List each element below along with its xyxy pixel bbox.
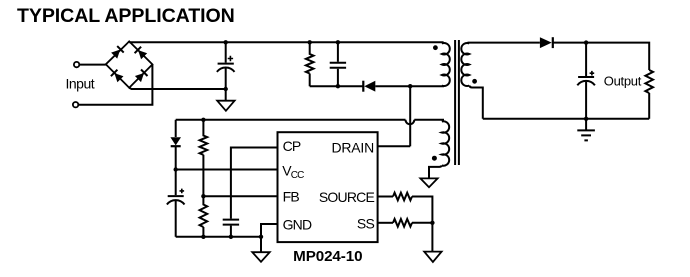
ground symbol G1 (input cap) <box>217 101 234 111</box>
plus sign C5 <box>590 71 595 76</box>
junction dot rail / GND <box>259 235 263 239</box>
junction dot output bottom <box>584 117 588 121</box>
svg-text:DRAIN: DRAIN <box>331 139 374 155</box>
wire bridge bottom to input cap <box>129 88 226 89</box>
svg-text:TYPICAL APPLICATION: TYPICAL APPLICATION <box>17 5 235 27</box>
svg-text:CP: CP <box>283 138 301 154</box>
junction dot top rail / C2 <box>336 40 340 44</box>
svg-text:SOURCE: SOURCE <box>319 189 375 205</box>
wire snubber bottom <box>310 85 363 87</box>
wire aux bottom to ground <box>429 166 442 179</box>
svg-text:MP024-10: MP024-10 <box>293 248 362 265</box>
capacitor C2 (snubber) <box>330 42 346 86</box>
junction dot SS node <box>430 221 434 225</box>
svg-text:Output: Output <box>604 73 642 88</box>
op IC U1 MP024-10 box <box>278 132 378 242</box>
bridge rectifier BR1 diamond <box>106 41 153 87</box>
wire R5 to vertical <box>412 197 432 223</box>
junction dot top rail / R1 <box>308 40 312 44</box>
junction dot FB node <box>201 194 205 198</box>
junction dot output top <box>584 40 588 44</box>
wire R6 to junction <box>412 222 432 224</box>
resistor R1 (snubber) <box>306 42 314 86</box>
bridge diode D2 (top-right, pointing NW) <box>135 47 148 60</box>
plus sign C3 <box>180 189 185 194</box>
capacitor C1 (input bulk, polarized) <box>217 42 235 100</box>
wire J2 to bridge right corner <box>79 64 153 104</box>
wire secondary top to output <box>468 42 540 44</box>
capacitor C5 (output, polarized) <box>577 43 595 119</box>
junction dot C1 bottom <box>224 87 228 91</box>
svg-text:FB: FB <box>283 189 300 205</box>
wire DRAIN pin <box>378 145 411 147</box>
phase dot secondary <box>472 79 477 84</box>
wire GND pin <box>261 224 278 252</box>
resistor R5 (source) <box>393 193 412 201</box>
wire SS node to ground <box>431 223 433 252</box>
wire ground rail (bottom left) <box>176 236 261 238</box>
bridge diode D3 (bottom-left, pointing NW) <box>111 70 124 83</box>
wire D5 anode to drain node <box>375 85 410 87</box>
plus sign C1 <box>228 56 233 61</box>
svg-text:GND: GND <box>283 216 312 232</box>
resistor R4 (load) <box>645 70 653 119</box>
wire D6 cathode to load <box>553 43 649 70</box>
wire output bottom rail <box>483 118 649 120</box>
input terminal J1 (top) <box>74 62 79 67</box>
output diode D6 (pointing right) <box>540 37 553 48</box>
input terminal J2 (bottom) <box>73 102 78 107</box>
diode D7 (VCC rectifier, pointing down) <box>170 120 181 170</box>
wire FB pin <box>203 195 277 197</box>
bridge diode D4 (bottom-right, pointing NE) <box>135 69 148 82</box>
wire CP pin <box>231 148 278 219</box>
junction dot VCC / D7 <box>174 167 178 171</box>
transformer T1 auxiliary winding <box>442 121 449 165</box>
wire VCC pin <box>176 169 278 171</box>
wire J1 to bridge left corner <box>80 64 106 66</box>
junction dot drain node <box>408 84 412 88</box>
wire aux rail <box>176 119 444 121</box>
junction dot aux rail / divider <box>201 118 205 122</box>
transformer T1 secondary winding <box>461 43 469 86</box>
svg-text:Input: Input <box>66 75 95 91</box>
ground symbol G4 (IC GND) <box>252 252 269 262</box>
resistor R2 (divider upper) <box>200 120 208 196</box>
wire top rail (bridge + output to primary) <box>129 41 443 43</box>
wire SS pin <box>378 222 393 224</box>
phase dot auxiliary <box>432 156 437 161</box>
ground symbol G3 (output, earth) <box>577 119 595 141</box>
transformer core <box>455 40 459 165</box>
wire hop dip (crossover) <box>406 120 415 124</box>
bridge diode D1 (top-left, pointing NE) <box>111 46 124 59</box>
wire drain vertical <box>409 86 411 146</box>
capacitor C3 (VCC, polarized) <box>167 170 185 237</box>
junction dot snubber bottom / C2 <box>336 84 340 88</box>
transformer T1 primary winding <box>442 43 450 86</box>
junction dot rail / C4 <box>229 235 233 239</box>
junction dot rail / R3 <box>201 235 205 239</box>
ground symbol G5 (SS) <box>424 252 441 262</box>
resistor R6 (SS) <box>393 219 412 227</box>
svg-text:SS: SS <box>357 216 375 232</box>
wire drain node to primary bottom <box>410 85 444 87</box>
capacitor C4 (CP) <box>223 220 239 237</box>
ground symbol G2 (aux winding) <box>420 178 437 187</box>
resistor R3 (divider lower) <box>200 196 208 237</box>
junction dot top rail / C1 <box>224 40 228 44</box>
clamp diode D5 (pointing left) <box>363 81 375 92</box>
phase dot primary <box>433 45 438 50</box>
wire SOURCE pin <box>378 196 393 198</box>
wire secondary bottom to output rail <box>469 86 483 119</box>
